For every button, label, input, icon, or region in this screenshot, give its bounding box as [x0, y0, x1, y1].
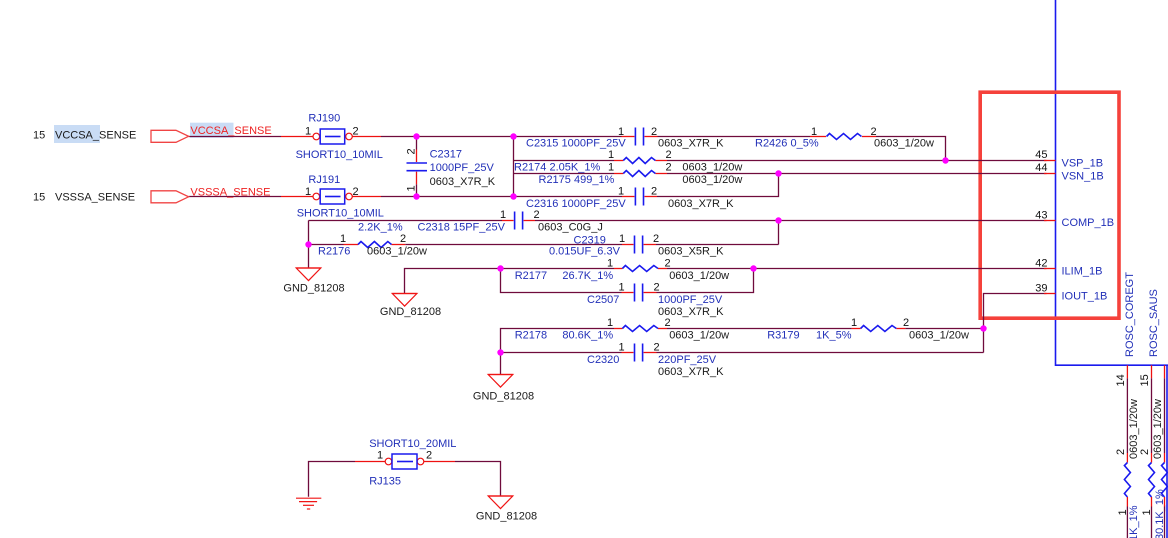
capacitor C2317 (vertical): [407, 150, 428, 185]
wire C2320 row left: [501, 352, 622, 354]
pin 42 stub: [1044, 268, 1056, 270]
svg-text:0603_1/20w: 0603_1/20w: [682, 174, 742, 186]
wire vertical x308 down to GND: [308, 221, 310, 269]
svg-text:2: 2: [352, 126, 358, 138]
svg-text:GND_81208: GND_81208: [380, 306, 441, 318]
svg-text:0603_1/20w: 0603_1/20w: [909, 330, 969, 342]
svg-text:COMP_1B: COMP_1B: [1062, 217, 1115, 229]
svg-text:1: 1: [305, 126, 311, 138]
selection box (red): [980, 92, 1119, 318]
wire VCCSA row from port to RJ190: [189, 136, 281, 138]
svg-text:15: 15: [33, 191, 45, 203]
svg-text:2: 2: [352, 186, 358, 198]
wire C2316 right then up to R2175 row: [657, 174, 779, 197]
pin 14 stub: [1126, 365, 1128, 378]
svg-text:220PF_25V: 220PF_25V: [658, 354, 717, 366]
svg-text:0603_1/20w: 0603_1/20w: [367, 246, 427, 258]
node row1/C2317: [413, 133, 419, 139]
highlight on VCCSA (left list): [54, 125, 100, 143]
svg-text:1: 1: [607, 317, 613, 329]
svg-text:GND_81208: GND_81208: [283, 282, 344, 294]
svg-text:R2178: R2178: [515, 330, 547, 342]
wire R2178 row left with GND drop: [501, 329, 615, 375]
svg-text:1: 1: [619, 233, 625, 245]
svg-text:2: 2: [870, 126, 876, 138]
wire C2507 branch right: [657, 269, 754, 293]
resistor R3178 (vertical, clipped at right edge): [1162, 378, 1168, 538]
svg-text:GND_81208: GND_81208: [473, 391, 534, 403]
svg-text:2: 2: [653, 341, 659, 353]
svg-text:1: 1: [608, 162, 614, 174]
capacitor C2316: [622, 188, 657, 206]
node COMP/C2319 riser: [775, 217, 781, 223]
wire R2175 row right to pin 44: [667, 173, 1047, 175]
svg-text:C2316 1000PF_25V: C2316 1000PF_25V: [526, 198, 626, 210]
capacitor C2507: [622, 284, 657, 302]
svg-text:R2177: R2177: [515, 270, 547, 282]
svg-text:0603_1/20w: 0603_1/20w: [669, 270, 729, 282]
wire VSP row right to pin 45: [667, 160, 1047, 162]
svg-text:1: 1: [340, 233, 346, 245]
pin 43 stub: [1044, 220, 1056, 222]
svg-text:2: 2: [533, 209, 539, 221]
svg-text:1: 1: [618, 185, 624, 197]
svg-text:R2176: R2176: [318, 246, 350, 258]
pin 45 stub: [1044, 160, 1056, 162]
svg-text:26.7K_1%: 26.7K_1%: [562, 270, 613, 282]
wire C2320 row right: [657, 352, 984, 354]
node C2320/GND drop: [497, 349, 503, 355]
resistor R2174: [614, 158, 667, 164]
wire R2177 row left with GND drop: [405, 269, 615, 294]
jumper RJ190: [281, 129, 381, 144]
ground GND_81208 right of RJ135: [476, 496, 537, 522]
svg-text:0.015UF_6.3V: 0.015UF_6.3V: [549, 246, 621, 258]
svg-text:R2175 499_1%: R2175 499_1%: [539, 174, 615, 186]
svg-text:0603_C0G_J: 0603_C0G_J: [538, 222, 603, 234]
svg-text:RJ191: RJ191: [308, 174, 340, 186]
svg-text:1: 1: [811, 126, 817, 138]
svg-text:0603_X7R_K: 0603_X7R_K: [430, 176, 496, 188]
svg-text:2: 2: [664, 317, 670, 329]
svg-text:C2315 1000PF_25V: C2315 1000PF_25V: [526, 138, 626, 150]
svg-text:0603_X7R_K: 0603_X7R_K: [658, 366, 724, 378]
svg-text:0603_1/20w: 0603_1/20w: [669, 330, 729, 342]
wire R2175 row left: [514, 173, 615, 175]
svg-text:2: 2: [664, 258, 670, 270]
pin 16 stub (clipped): [1164, 365, 1166, 378]
resistor R3181 (vertical, pin 14): [1124, 378, 1130, 538]
svg-text:VCCSA_SENSE: VCCSA_SENSE: [55, 129, 136, 141]
svg-text:2: 2: [665, 162, 671, 174]
wire RJ191 to C2316: [381, 196, 622, 198]
node VSSSA/C2317: [413, 193, 419, 199]
svg-text:15: 15: [33, 129, 45, 141]
svg-text:1000PF_25V: 1000PF_25V: [658, 294, 723, 306]
wire vertical C2317 branch bottom: [416, 184, 418, 196]
capacitor C2319: [622, 236, 656, 254]
svg-text:RJ135: RJ135: [369, 475, 401, 487]
svg-text:42: 42: [1035, 258, 1047, 270]
svg-text:0603_X5R_K: 0603_X5R_K: [658, 246, 724, 258]
node R2177/C2507 right: [750, 265, 756, 271]
svg-text:2: 2: [903, 317, 909, 329]
port VSSSA_SENSE: [151, 191, 189, 203]
wire C2319 right: [656, 244, 779, 246]
vertical wire at right edge (clipped block): [1166, 365, 1168, 538]
wire vertical branch x513: [513, 137, 515, 197]
svg-text:C2318 15PF_25V: C2318 15PF_25V: [418, 222, 506, 234]
resistor R2176: [344, 242, 406, 248]
svg-text:39: 39: [1035, 283, 1047, 295]
capacitor C2318: [502, 212, 535, 230]
wire R2426 to corner: [876, 137, 946, 161]
junction dots: [305, 133, 986, 355]
jumper RJ191: [281, 189, 381, 204]
svg-text:IOUT_1B: IOUT_1B: [1062, 290, 1108, 302]
IC U1 outline: [1056, 0, 1168, 365]
svg-text:R2426 0_5%: R2426 0_5%: [755, 138, 819, 150]
svg-text:2: 2: [653, 281, 659, 293]
svg-text:43: 43: [1035, 209, 1047, 221]
wire C2507 branch left: [501, 269, 622, 293]
svg-text:VSP_1B: VSP_1B: [1062, 158, 1104, 170]
svg-text:SHORT10_20MIL: SHORT10_20MIL: [369, 438, 456, 450]
svg-text:0603_1/20w: 0603_1/20w: [874, 138, 934, 150]
capacitor C2320: [622, 344, 657, 362]
svg-text:2: 2: [1115, 449, 1127, 455]
svg-text:1: 1: [608, 149, 614, 161]
svg-text:ILIM_1B: ILIM_1B: [1062, 265, 1103, 277]
svg-text:2: 2: [1139, 449, 1151, 455]
node VSSSA/x513: [510, 193, 516, 199]
svg-text:1000PF_25V: 1000PF_25V: [430, 162, 495, 174]
ground GND_81208 under R2178 branch: [473, 375, 534, 403]
ground GND_81208 under R2177 branch: [380, 294, 441, 318]
wire R3179 right: [905, 328, 983, 330]
svg-text:1K_5%: 1K_5%: [816, 330, 852, 342]
svg-text:1: 1: [305, 186, 311, 198]
node VSP/R2426: [942, 157, 948, 163]
svg-text:44: 44: [1035, 162, 1047, 174]
earth ground left of RJ135: [296, 498, 321, 509]
svg-text:R3179: R3179: [767, 330, 799, 342]
resistor R2175: [614, 171, 667, 177]
svg-text:80.6K_1%: 80.6K_1%: [562, 330, 613, 342]
svg-text:15: 15: [1139, 374, 1151, 386]
resistor R2426: [810, 134, 876, 140]
ground GND_81208 under R2176 branch: [283, 268, 344, 294]
pin 44 stub: [1044, 173, 1056, 175]
svg-text:14: 14: [1115, 374, 1127, 386]
resistor R2177: [614, 266, 667, 272]
pin 39 stub: [1044, 293, 1056, 295]
svg-text:VSSSA_SENSE: VSSSA_SENSE: [55, 191, 135, 203]
capacitor C2315: [622, 128, 658, 146]
node pin44/VSSSA riser: [775, 170, 781, 176]
node R2177/C2507 left: [497, 265, 503, 271]
svg-text:1: 1: [618, 341, 624, 353]
svg-text:2: 2: [651, 185, 657, 197]
highlight on net label VCCSA_: [190, 123, 234, 138]
svg-text:0603_X7R_K: 0603_X7R_K: [668, 198, 734, 210]
svg-text:1: 1: [406, 185, 418, 191]
wire RJ135 right with GND drop: [455, 462, 501, 497]
port VCCSA_SENSE: [151, 130, 189, 142]
svg-text:RJ190: RJ190: [308, 112, 340, 124]
wire R2176 row left: [309, 244, 344, 246]
svg-text:R2174 2.05K_1%: R2174 2.05K_1%: [514, 161, 600, 173]
svg-text:1: 1: [377, 450, 383, 462]
wire IOUT pin 39 branch: [984, 294, 1047, 353]
svg-text:2: 2: [651, 126, 657, 138]
jumper RJ135: [355, 454, 455, 469]
wire VSP row left: [514, 160, 615, 162]
svg-text:2.2K_1%: 2.2K_1%: [358, 222, 403, 234]
svg-text:0603_1/20w: 0603_1/20w: [682, 161, 742, 173]
svg-text:2: 2: [406, 148, 418, 154]
svg-text:1: 1: [618, 126, 624, 138]
svg-text:2: 2: [400, 233, 406, 245]
svg-text:VCCSA_SENSE: VCCSA_SENSE: [190, 125, 271, 137]
svg-text:ROSC_COREGT: ROSC_COREGT: [1124, 272, 1136, 357]
wire RJ135 left with GND drop: [309, 462, 356, 497]
svg-text:1: 1: [1141, 509, 1153, 515]
wire vertical C2317 branch top: [416, 137, 418, 150]
wire vertical from COMP row down to C2319 row: [778, 221, 780, 245]
resistor R2178: [614, 326, 667, 332]
wire R2178 to R3179: [667, 328, 852, 330]
wire R2176 to C2319: [405, 244, 622, 246]
svg-text:SHORT10_10MIL: SHORT10_10MIL: [297, 208, 384, 220]
svg-text:0603_X7R_K: 0603_X7R_K: [658, 138, 724, 150]
svg-text:VSN_1B: VSN_1B: [1062, 170, 1104, 182]
svg-text:SHORT10_10MIL: SHORT10_10MIL: [296, 149, 383, 161]
node R2178/IOUT riser: [980, 325, 986, 331]
wire C2315 to R2426: [658, 136, 811, 138]
node x308/R2176: [305, 241, 311, 247]
resistor R3180 (vertical, pin 15): [1149, 378, 1155, 538]
svg-text:1: 1: [500, 209, 506, 221]
node row1/x513: [510, 133, 516, 139]
resistor R3179: [852, 326, 906, 332]
wire VSSSA row port to RJ191: [189, 196, 281, 198]
svg-text:0603_1/20w: 0603_1/20w: [1152, 399, 1164, 459]
wire RJ190 to C2315: [381, 136, 622, 138]
svg-text:1: 1: [851, 317, 857, 329]
wire COMP row to pin 43: [535, 220, 1047, 222]
svg-text:C2507: C2507: [587, 294, 619, 306]
svg-text:ROSC_SAUS: ROSC_SAUS: [1148, 289, 1160, 357]
svg-text:2: 2: [426, 450, 432, 462]
svg-text:45: 45: [1035, 149, 1047, 161]
svg-text:C2317: C2317: [430, 149, 462, 161]
wire COMP row left of C2318: [309, 220, 503, 222]
svg-text:C2320: C2320: [587, 354, 619, 366]
svg-text:2: 2: [653, 233, 659, 245]
wire R2177 row right to pin 42: [667, 268, 1047, 270]
svg-text:VSSSA_SENSE: VSSSA_SENSE: [190, 186, 270, 198]
svg-text:1K_1%: 1K_1%: [1128, 505, 1140, 538]
pin 15 stub: [1151, 365, 1153, 378]
svg-text:1: 1: [618, 281, 624, 293]
svg-text:2: 2: [665, 149, 671, 161]
svg-text:GND_81208: GND_81208: [476, 510, 537, 522]
svg-text:1: 1: [607, 258, 613, 270]
